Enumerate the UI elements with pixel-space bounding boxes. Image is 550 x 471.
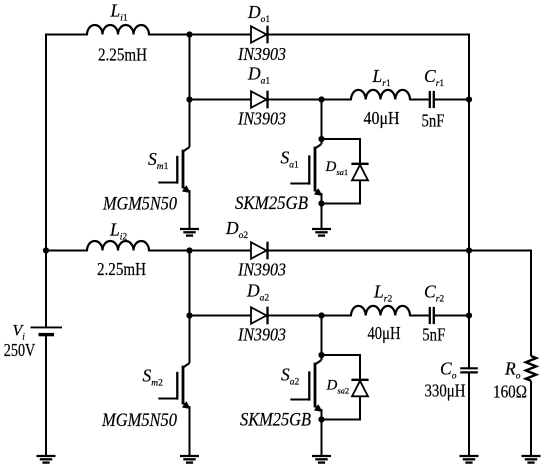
svg-text:SKM25GB: SKM25GB [240,410,311,431]
svg-text:330μH: 330μH [425,381,466,401]
svg-text:2.25mH: 2.25mH [97,259,146,279]
svg-text:250V: 250V [4,340,36,360]
svg-text:40μH: 40μH [368,323,401,343]
svg-text:2.25mH: 2.25mH [98,44,147,64]
svg-text:5nF: 5nF [422,324,445,344]
svg-text:IN3903: IN3903 [237,260,286,280]
svg-text:IN3903: IN3903 [237,109,286,129]
svg-text:MGM5N50: MGM5N50 [101,410,177,431]
svg-text:IN3903: IN3903 [237,44,286,64]
svg-text:MGM5N50: MGM5N50 [102,194,177,215]
svg-text:40μH: 40μH [364,108,400,128]
svg-text:SKM25GB: SKM25GB [235,193,308,214]
svg-text:IN3903: IN3903 [237,325,286,345]
svg-text:160Ω: 160Ω [493,382,527,402]
svg-text:5nF: 5nF [422,111,445,131]
